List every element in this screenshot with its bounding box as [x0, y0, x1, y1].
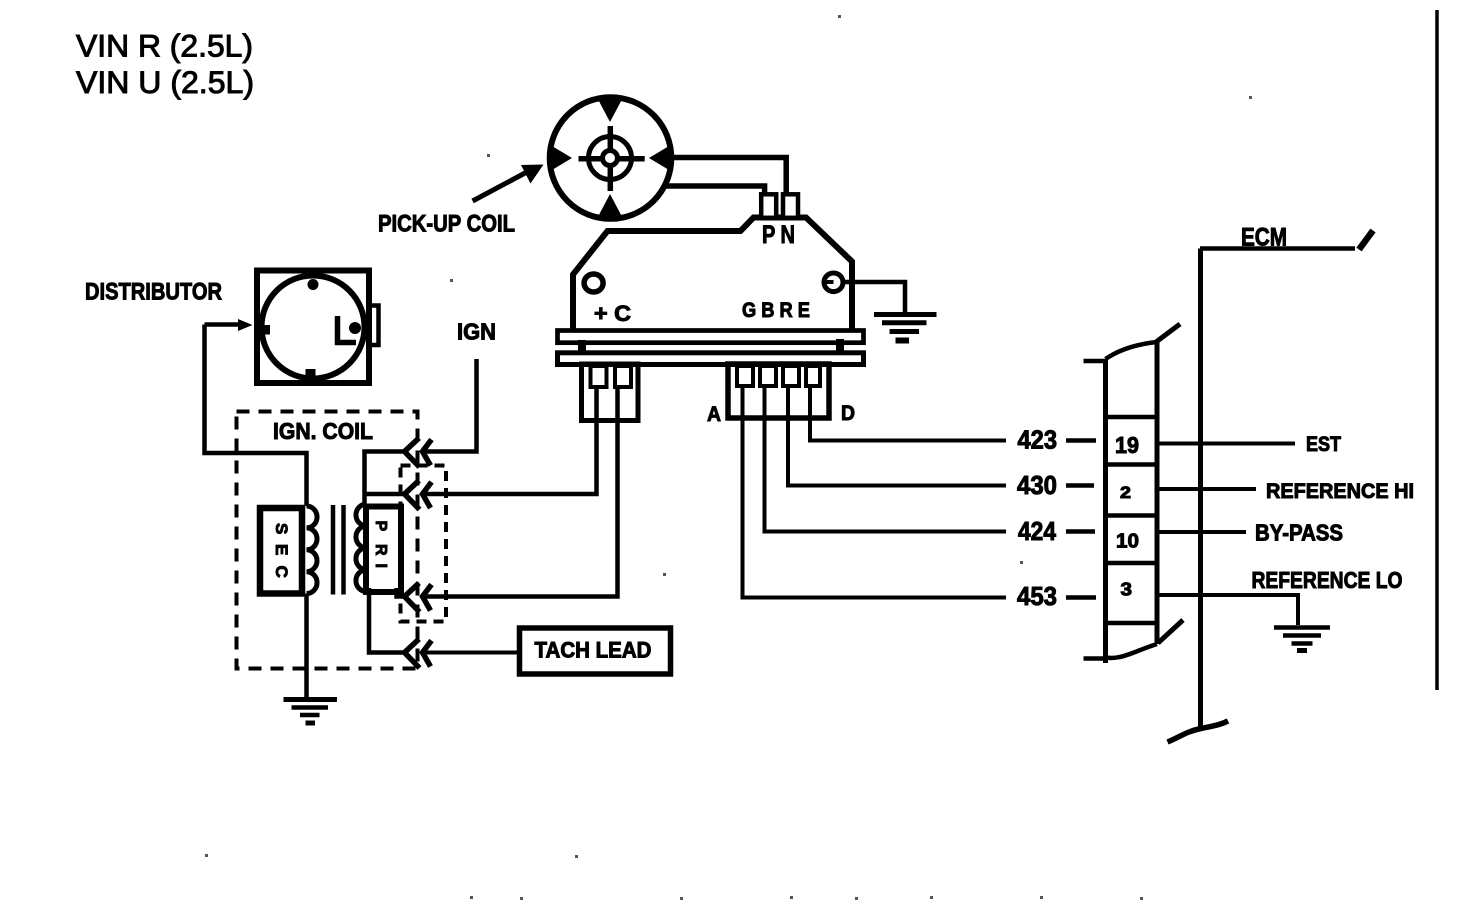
svg-text:BY-PASS: BY-PASS: [1255, 520, 1343, 546]
svg-text:2: 2: [1120, 483, 1131, 502]
distributor left square: [262, 325, 271, 335]
coil SEC box: [260, 508, 302, 594]
dash 423: [1066, 438, 1096, 443]
wire REFERENCE HI: [1159, 487, 1256, 491]
wire chevron1 to coil: [365, 452, 405, 505]
wire pin B to 424: [765, 386, 1007, 532]
svg-text:IGN. COIL: IGN. COIL: [273, 418, 373, 444]
svg-text:19: 19: [1115, 432, 1139, 458]
module pin P: [761, 194, 776, 218]
dash 430: [1066, 483, 1094, 488]
distributor right bracket: [370, 306, 379, 346]
label arrow to pick-up coil: [473, 173, 526, 202]
connector bottom curve: [1103, 644, 1157, 658]
svg-text:+ C: + C: [594, 301, 631, 326]
SEC winding: [307, 506, 318, 594]
pick-up coil top triangle: [597, 97, 624, 123]
pick-up coil bottom triangle: [597, 194, 624, 220]
wire pin D to 423: [810, 386, 1006, 441]
bar tab left: [578, 340, 586, 353]
svg-text:G B R E: G B R E: [742, 298, 810, 322]
svg-text:TACH LEAD: TACH LEAD: [535, 638, 652, 663]
wire coil to pin N: [671, 158, 786, 197]
connector bottom left tick: [1084, 656, 1106, 661]
pick-up coil crosshair vertical: [608, 126, 614, 191]
svg-text:A: A: [707, 403, 721, 426]
wire chevron2 left: [365, 492, 405, 497]
wire REFERENCE LO: [1159, 595, 1298, 625]
connector top curve: [1106, 342, 1158, 359]
svg-text:IGN: IGN: [457, 319, 496, 345]
svg-text:REFERENCE LO: REFERENCE LO: [1252, 567, 1403, 593]
pick-up coil crosshair horizontal: [579, 156, 645, 162]
distributor L mark: [338, 316, 357, 343]
connector cell dividers: [1106, 415, 1158, 420]
module ground wire: [845, 282, 905, 313]
connector top right tick: [1156, 324, 1180, 342]
arrow into distributor: [205, 322, 241, 327]
module left connector: [582, 364, 639, 421]
ECM top line: [1200, 246, 1355, 251]
reference lo ground symbol: [1274, 625, 1330, 630]
svg-text:REFERENCE HI: REFERENCE HI: [1266, 480, 1414, 503]
distributor circle: [262, 276, 365, 379]
module left hole: [584, 274, 603, 292]
far right vertical line: [1435, 10, 1439, 690]
module mounting bar upper: [558, 331, 864, 343]
module ground symbol: [874, 312, 937, 317]
connector bottom right tick: [1158, 620, 1183, 643]
PRI winding: [356, 504, 367, 592]
connector chevron 2: [405, 481, 432, 510]
right connector pin D: [806, 366, 820, 386]
left connector pin +: [591, 366, 607, 387]
right connector pin C2: [783, 366, 799, 386]
svg-text:PICK-UP COIL: PICK-UP COIL: [378, 211, 515, 238]
distributor top dot: [308, 279, 319, 290]
core lines: [331, 505, 336, 595]
wire SEC to ground: [304, 594, 309, 699]
connector chevron 3: [405, 583, 432, 612]
svg-text:I: I: [372, 564, 389, 568]
ECM connector right line: [1155, 342, 1160, 644]
svg-text:423: 423: [1018, 425, 1058, 455]
distributor inner dot: [349, 322, 361, 334]
pick-up coil center circle: [603, 151, 618, 166]
wire distributor loop: [205, 325, 307, 507]
wire chevron3 to module pin: [424, 386, 618, 597]
svg-text:430: 430: [1017, 470, 1057, 500]
svg-text:453: 453: [1017, 581, 1057, 611]
svg-text:E: E: [272, 544, 291, 555]
connector top left tick: [1084, 359, 1106, 364]
svg-text:DISTRIBUTOR: DISTRIBUTOR: [85, 279, 222, 306]
svg-text:VIN U (2.5L): VIN U (2.5L): [76, 64, 254, 100]
ignition coil ground symbol: [284, 697, 338, 702]
dash 424: [1066, 529, 1095, 534]
ECM vertical line: [1198, 249, 1203, 729]
ECM bottom tick: [1168, 721, 1229, 742]
wire chevron2 to module pin C: [424, 386, 597, 494]
ignition module outline: [573, 218, 852, 333]
right connector pin B: [760, 366, 776, 386]
svg-text:P: P: [372, 521, 389, 532]
pick-up coil left triangle: [550, 145, 573, 172]
wire pri bottom to chevron3: [397, 588, 405, 597]
svg-text:10: 10: [1116, 531, 1139, 553]
wire EST: [1159, 442, 1295, 446]
module right connector: [728, 364, 829, 418]
wire chevron4 to tach lead: [424, 651, 520, 655]
left connector pin C: [615, 366, 631, 387]
connector chevron 4 (tach): [405, 639, 432, 668]
svg-text:D: D: [841, 402, 855, 425]
coil PRI box: [366, 507, 401, 593]
bar tab right: [836, 339, 844, 353]
right connector pin A: [737, 366, 753, 386]
ECM connector left line: [1103, 359, 1108, 663]
TACH LEAD box: [520, 628, 671, 674]
svg-text:S: S: [272, 523, 291, 534]
svg-text:C: C: [272, 566, 291, 578]
svg-text:EST: EST: [1306, 433, 1341, 456]
dash 453: [1066, 595, 1096, 600]
svg-text:VIN R (2.5L): VIN R (2.5L): [76, 28, 253, 64]
inner dashed connector box: [401, 466, 447, 622]
scan specks: [205, 15, 1252, 900]
wire pin C2 to 430: [788, 386, 1006, 486]
svg-text:3: 3: [1121, 580, 1133, 600]
pick-up coil right triangle (arrow of wire): [649, 145, 672, 172]
ignition coil dashed box: [237, 412, 418, 669]
module pin N: [783, 194, 798, 218]
distributor box: [257, 271, 369, 384]
module right hole: [824, 273, 843, 292]
pick-up coil outer circle: [550, 97, 672, 219]
module mounting bar lower: [558, 353, 864, 365]
svg-text:424: 424: [1018, 516, 1056, 546]
ECM top tick: [1359, 231, 1373, 250]
svg-text:R: R: [372, 544, 389, 556]
distributor bottom square: [306, 369, 316, 379]
pick-up coil inner ring: [589, 137, 632, 180]
wire IGN: [424, 359, 477, 452]
wire BY-PASS: [1159, 530, 1246, 534]
wire pri bottom to chevron4: [369, 588, 405, 653]
svg-text:P N: P N: [762, 221, 795, 249]
connector chevron 1 (IGN): [405, 438, 432, 467]
wire coil to pin P: [666, 186, 765, 196]
wire pin A to 453: [743, 386, 1007, 598]
